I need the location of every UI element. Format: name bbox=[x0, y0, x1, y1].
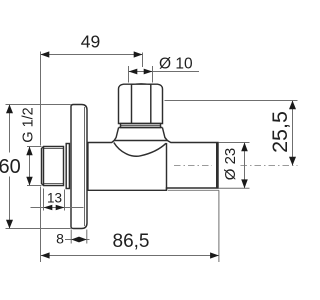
svg-text:49: 49 bbox=[81, 32, 100, 52]
svg-text:Ø 23: Ø 23 bbox=[222, 148, 239, 181]
svg-text:13: 13 bbox=[47, 191, 62, 206]
svg-text:60: 60 bbox=[0, 156, 21, 178]
svg-text:Ø 10: Ø 10 bbox=[159, 56, 193, 73]
svg-text:86,5: 86,5 bbox=[113, 231, 150, 252]
svg-text:8: 8 bbox=[56, 231, 64, 247]
svg-text:G 1/2: G 1/2 bbox=[20, 107, 36, 142]
svg-text:25,5: 25,5 bbox=[268, 111, 292, 153]
